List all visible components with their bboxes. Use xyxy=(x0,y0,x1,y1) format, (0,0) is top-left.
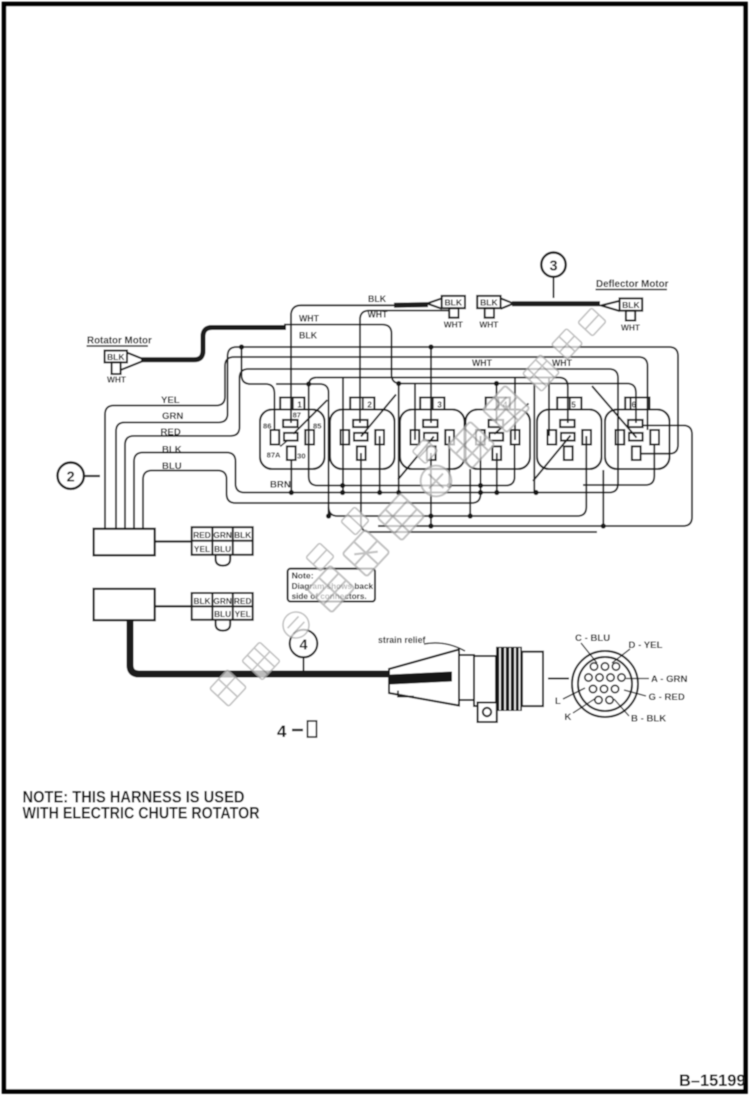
callout circle 3 xyxy=(541,253,565,298)
svg-text:BLK: BLK xyxy=(480,298,498,308)
svg-text:RED: RED xyxy=(193,530,211,540)
wire block to table2 xyxy=(155,605,192,607)
svg-text:WHT: WHT xyxy=(368,310,389,320)
svg-text:BLK: BLK xyxy=(368,294,387,304)
wire bus514 xyxy=(329,436,587,526)
connector block lower xyxy=(94,589,155,620)
svg-text:A - GRN: A - GRN xyxy=(651,674,687,685)
wire relay4 pin85 feed xyxy=(514,378,516,441)
svg-text:L: L xyxy=(555,696,561,707)
watermark band xyxy=(210,308,607,707)
connector BLK-WHT deflector motor xyxy=(601,298,642,332)
wire to relay1 pin86, junction xyxy=(239,344,275,431)
pin labels xyxy=(555,633,687,725)
note text bottom xyxy=(23,788,260,823)
svg-text:C - BLU: C - BLU xyxy=(575,633,610,644)
wire RED-BLK loop around relays xyxy=(125,358,618,529)
wire relay2 pin85 down, junction xyxy=(377,436,382,495)
svg-text:BLU: BLU xyxy=(162,461,182,472)
svg-text:30: 30 xyxy=(297,452,305,461)
wire gap vertical to bus516, junction xyxy=(468,469,473,519)
svg-text:5: 5 xyxy=(571,400,576,409)
wire relay4 pin30 down, junction xyxy=(494,453,499,495)
connector pins xyxy=(585,663,625,704)
svg-text:B - BLK: B - BLK xyxy=(631,714,666,725)
svg-text:1: 1 xyxy=(297,400,302,409)
wire relay6 pin85 to bus485 xyxy=(583,445,654,486)
relay K1 xyxy=(260,398,327,470)
svg-text:RED: RED xyxy=(234,596,252,606)
svg-text:WHT: WHT xyxy=(472,358,493,368)
wire relay5 pin86 feed xyxy=(548,378,550,437)
svg-text:85: 85 xyxy=(313,422,322,431)
wire link dash xyxy=(548,678,569,680)
svg-text:YEL: YEL xyxy=(161,395,180,406)
label 4-box xyxy=(277,721,317,741)
wire relay3 pin86 feed xyxy=(414,384,416,441)
wire relay5 tab feed across xyxy=(309,378,568,477)
svg-text:YEL: YEL xyxy=(194,544,210,554)
wire relay1 pin30 down, junction xyxy=(289,460,294,495)
svg-text:GRN: GRN xyxy=(162,411,183,422)
wire junction up from bus525 xyxy=(602,470,604,526)
wire BLU under relays to relay4 pin86 xyxy=(143,436,481,529)
connector half BLK-WHT left of pair xyxy=(427,296,465,330)
wire block to table1 xyxy=(155,540,192,542)
label Rotator Motor xyxy=(87,336,152,347)
relay K6 xyxy=(592,386,670,469)
svg-text:86: 86 xyxy=(263,422,271,431)
svg-text:Rotator Motor: Rotator Motor xyxy=(87,336,152,347)
svg-text:WHT: WHT xyxy=(107,375,127,385)
svg-text:G - RED: G - RED xyxy=(649,692,685,703)
relay K3 xyxy=(398,398,465,480)
connector BLK-WHT rotator motor xyxy=(105,351,143,385)
thick wire between pair and deflector connector xyxy=(512,301,600,306)
wire relay4 tab feed, junction xyxy=(494,381,499,423)
svg-text:BLK: BLK xyxy=(107,352,125,362)
pinout table 2 xyxy=(192,593,253,631)
svg-text:GRN: GRN xyxy=(213,596,231,606)
note box xyxy=(288,569,375,602)
svg-text:6: 6 xyxy=(632,400,637,409)
wire over relay1 down to bus514 xyxy=(276,381,331,518)
relay K2 xyxy=(330,395,396,470)
wire WHT thin continuation across relay tops xyxy=(284,314,636,424)
wire YEL xyxy=(105,357,648,529)
svg-text:4: 4 xyxy=(299,638,307,654)
svg-text:K: K xyxy=(565,712,572,723)
svg-text:RED: RED xyxy=(161,427,181,438)
wire gap vertical to BRN bus right, junction xyxy=(533,384,538,496)
svg-text:BLK: BLK xyxy=(622,300,640,310)
svg-text:Note:: Note: xyxy=(292,571,314,581)
callout circle 4 xyxy=(290,630,318,671)
wire relay3 pin85 down, junction xyxy=(447,436,483,488)
label Deflector Motor xyxy=(596,279,669,290)
svg-text:BLK: BLK xyxy=(444,298,462,308)
thick wire main harness cable xyxy=(130,620,420,674)
svg-text:BLK: BLK xyxy=(299,331,318,341)
wire relay6 pin87 loop to bus525 xyxy=(378,425,692,528)
svg-text:Deflector Motor: Deflector Motor xyxy=(596,279,669,290)
wire BLU riser junction xyxy=(478,490,483,495)
wire BRN bus xyxy=(270,445,515,491)
svg-text:2: 2 xyxy=(367,400,372,409)
svg-text:BLU: BLU xyxy=(214,544,231,554)
svg-text:BLU: BLU xyxy=(214,609,231,619)
svg-text:3: 3 xyxy=(437,400,442,409)
wire WHT to connector pin xyxy=(360,310,449,424)
svg-text:BLK: BLK xyxy=(193,596,210,606)
svg-text:BLK: BLK xyxy=(162,445,182,456)
thick wire rotator cable xyxy=(141,328,286,360)
svg-text:WHT: WHT xyxy=(552,358,573,368)
svg-text:87: 87 xyxy=(293,411,301,420)
connector block upper xyxy=(94,529,155,556)
callout circle 2 xyxy=(57,463,100,489)
connector plug body xyxy=(389,650,497,723)
svg-text:3: 3 xyxy=(549,259,557,275)
svg-text:strain relief: strain relief xyxy=(378,635,425,645)
wire GRN around relays to relay6 pin30 xyxy=(116,347,678,529)
svg-text:YEL: YEL xyxy=(235,609,251,619)
wire bus531 from relay2 pin30 xyxy=(361,453,597,532)
label strain relief xyxy=(378,635,465,651)
svg-text:WITH ELECTRIC CHUTE ROTATOR: WITH ELECTRIC CHUTE ROTATOR xyxy=(23,804,260,823)
wire BLK thin to connector pair with thick stub xyxy=(291,294,428,423)
wire relay3 tab feed, junction xyxy=(428,344,433,423)
relay K4 xyxy=(466,398,531,470)
svg-text:D - YEL: D - YEL xyxy=(629,640,663,651)
svg-text:BRN: BRN xyxy=(270,480,291,491)
svg-text:WHT: WHT xyxy=(299,314,320,324)
svg-text:2: 2 xyxy=(67,470,75,486)
svg-text:WHT: WHT xyxy=(444,320,464,330)
relay K5 xyxy=(533,398,602,482)
wire gap vertical to BRN bus, junction xyxy=(396,381,401,495)
svg-text:4: 4 xyxy=(277,722,287,741)
connector ribbed collar xyxy=(496,647,522,711)
connector rear cylinder xyxy=(522,652,543,706)
svg-text:BLK: BLK xyxy=(234,530,251,540)
connector half BLK-WHT right of pair xyxy=(477,296,513,330)
circular connector face xyxy=(572,651,638,717)
svg-text:B–15199: B–15199 xyxy=(679,1072,746,1090)
pinout table 1 xyxy=(192,527,253,565)
svg-text:WHT: WHT xyxy=(621,323,641,333)
svg-text:WHT: WHT xyxy=(479,320,499,330)
svg-text:GRN: GRN xyxy=(213,530,231,540)
wire relay2 pin86 feed through to BRN bus, junction xyxy=(340,378,345,496)
svg-text:87A: 87A xyxy=(267,451,281,460)
